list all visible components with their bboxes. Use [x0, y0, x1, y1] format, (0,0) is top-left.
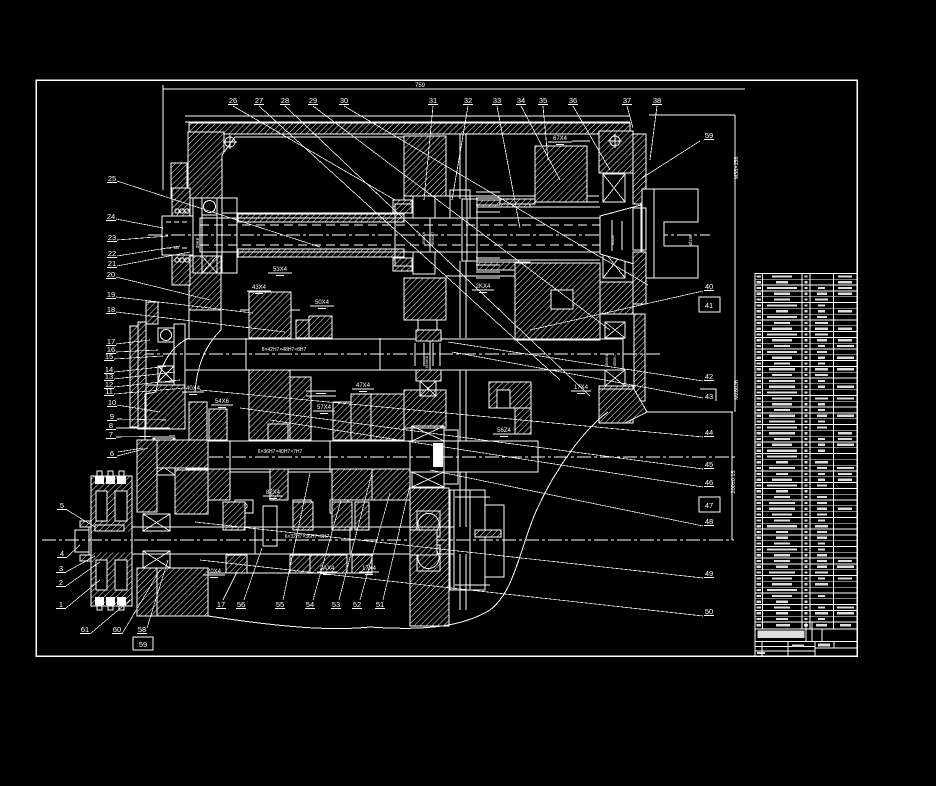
shaft3 right bearing upper [412, 426, 444, 441]
tooth profile verticals [230, 469, 372, 500]
gear label 67X4 [548, 136, 572, 145]
gear 40X4 [189, 402, 207, 440]
callout 24 [106, 212, 116, 221]
callout 61 [80, 625, 90, 634]
gear rim c [332, 469, 372, 500]
callout 5 [57, 501, 67, 510]
shaft4 shoulder line a [254, 527, 256, 554]
callout 59 boxed bottom [133, 637, 153, 650]
svg-text:28: 28 [281, 96, 289, 105]
parts list table [755, 274, 857, 657]
section bolt symbol right [608, 134, 622, 148]
output flange plate [91, 476, 132, 606]
callout 36 [568, 96, 578, 105]
leader line [116, 340, 150, 344]
gear block to wall [371, 394, 404, 440]
right bearing caps [633, 208, 646, 250]
gear label 54X6 [211, 399, 233, 408]
bearing cap column right [633, 134, 646, 204]
leader line [114, 356, 163, 359]
svg-text:34: 34 [517, 96, 525, 105]
gear z67 upper half [535, 146, 587, 202]
svg-text:Ø50K7: Ø50K7 [613, 354, 617, 366]
bevel cone on shaft1 right end [600, 205, 641, 266]
svg-text:55: 55 [276, 600, 284, 609]
leader line [543, 106, 548, 160]
shaft4 right ball bearing lower [417, 545, 440, 571]
sleeve hatched band on shaft1 lower [238, 249, 404, 257]
housing right wall upper [599, 131, 633, 173]
gear label 2KX4 [472, 284, 494, 293]
gear cap d [293, 500, 311, 513]
svg-text:43: 43 [705, 392, 713, 401]
gear 43X4 upper [249, 292, 291, 338]
callout 47 boxed [699, 497, 720, 512]
callout 28 [280, 96, 290, 105]
gear 47X4b [351, 394, 371, 440]
gear rim s4 b [290, 555, 313, 573]
shaft3 right bearing lower [412, 472, 444, 487]
svg-text:25: 25 [108, 174, 116, 183]
callout 19 [106, 290, 116, 299]
shaft4 left bearing lower [143, 551, 170, 568]
gear hub c [332, 502, 352, 530]
right end cap shaft3 [444, 430, 458, 484]
svg-text:31: 31 [429, 96, 437, 105]
svg-text:6×36H7×40H7×7H7: 6×36H7×40H7×7H7 [258, 449, 303, 455]
shaft2 mid bearing roller [420, 381, 436, 396]
callout 10 [107, 398, 117, 407]
leader line [285, 106, 590, 396]
leader 1 [66, 580, 100, 608]
callout 53 [331, 600, 341, 609]
gear 57X4 [333, 402, 351, 440]
gear hub d [355, 502, 369, 530]
svg-text:18: 18 [107, 305, 115, 314]
svg-text:56Z4: 56Z4 [497, 428, 511, 434]
gear hub strip [500, 199, 535, 204]
svg-text:32: 32 [464, 96, 472, 105]
shaft4 left bearing upper [143, 514, 170, 531]
callout 54 [305, 600, 315, 609]
table header row texts [757, 624, 762, 626]
bushing seal lower [416, 370, 441, 381]
callout 11 [104, 387, 114, 396]
retainer lower [80, 555, 91, 561]
svg-text:19: 19 [107, 290, 115, 299]
leader line [521, 106, 560, 180]
gear label 82X4 [263, 490, 283, 499]
svg-text:40X4: 40X4 [186, 386, 201, 392]
housing lower-left wall upper [137, 440, 157, 512]
svg-text:54: 54 [306, 600, 314, 609]
callout 45 [704, 460, 714, 469]
callout 49 [704, 569, 714, 578]
overall dimension line 759 [163, 88, 745, 90]
shaft 2 body [185, 339, 623, 370]
svg-text:21: 21 [108, 259, 116, 268]
svg-text:35: 35 [539, 96, 547, 105]
gear 54X6 [209, 409, 227, 440]
callout 55 [275, 600, 285, 609]
svg-text:M38×J56: M38×J56 [734, 157, 740, 180]
leader 58 [147, 560, 168, 628]
shaft4 shoulder line b [349, 527, 351, 554]
outer flange strip 1 [130, 326, 138, 427]
output flange of shaft 1 (C shape) [642, 189, 698, 278]
callout 35 [538, 96, 548, 105]
callout 33 [492, 96, 502, 105]
leader line [117, 419, 166, 420]
shaft 1 coupling bore block [162, 216, 193, 255]
callout 31 [428, 96, 438, 105]
shaft1 spline hidden line lower [200, 244, 600, 246]
callout 23 [107, 233, 117, 242]
leader line [259, 106, 560, 380]
gear rim s4 d [352, 555, 372, 573]
callout 32 [463, 96, 473, 105]
shaft 1 body [200, 218, 600, 252]
svg-text:47X4: 47X4 [356, 383, 371, 389]
gear label 20X4 [203, 569, 225, 578]
shaft 4 centerline [42, 539, 734, 541]
gear 50X4 upper [309, 316, 332, 338]
housing bottom outline [208, 572, 372, 574]
svg-text:1: 1 [59, 600, 63, 609]
right wall tapered foot (hatched) [599, 389, 647, 423]
svg-text:43X4: 43X4 [252, 285, 267, 291]
shaft2 right bearing lower [605, 370, 625, 386]
leader line [117, 448, 148, 456]
shaft3 left bearing lower [153, 460, 175, 475]
input left bearing cap [217, 198, 237, 273]
shaft3 shoulder line b [329, 441, 331, 472]
callout 38 [652, 96, 662, 105]
housing top plate hatched band [189, 123, 630, 134]
housing top cover plate [185, 115, 630, 117]
leader line [424, 106, 433, 200]
svg-text:M280J6: M280J6 [734, 380, 740, 400]
callout 12 [104, 380, 114, 389]
callout 58 [137, 625, 147, 634]
svg-text:22: 22 [108, 249, 116, 258]
svg-text:54X6: 54X6 [215, 399, 230, 405]
gear rim d [372, 469, 410, 500]
leader line [452, 352, 703, 398]
input right bearing lower [603, 250, 625, 278]
callout 37 [622, 96, 632, 105]
svg-text:52: 52 [353, 600, 361, 609]
leader line [448, 342, 703, 381]
leader line [283, 473, 310, 600]
shaft 2 left bearing (ball upper, cross lower) [158, 328, 174, 342]
leader line [627, 106, 633, 128]
svg-text:67X4: 67X4 [553, 136, 568, 142]
svg-text:56: 56 [237, 600, 245, 609]
gear label 43X4 [247, 285, 271, 294]
shaft 1 centerline [148, 234, 710, 236]
svg-text:27: 27 [255, 96, 263, 105]
gear rim row below shaft3 [186, 468, 410, 470]
leader line [383, 485, 410, 600]
callout 34 [516, 96, 526, 105]
gear label 17X4b [359, 566, 379, 575]
mid bearing cap upper [413, 196, 435, 218]
svg-text:38: 38 [653, 96, 661, 105]
gear hub ring stack [476, 192, 500, 278]
sleeve hatched band on shaft1 upper [238, 214, 404, 222]
shaft1 spline hidden line upper [200, 224, 600, 226]
gear label 47X4 [352, 383, 374, 392]
leader line [200, 560, 703, 616]
leader line [116, 436, 175, 437]
shaft3 shoulder line a [229, 441, 231, 472]
shaft 4 left end stub [75, 530, 89, 552]
callout 43 with elbow [700, 389, 716, 401]
housing interior cavity upper (chamfered corner) [222, 137, 404, 213]
callout 13 [104, 372, 114, 381]
shaft4 right stepped hub [450, 490, 485, 590]
gear hub band lower [477, 262, 530, 270]
bearing seat block left of mid wall [393, 200, 412, 213]
leader 3 [66, 556, 95, 572]
svg-text:47: 47 [705, 501, 713, 510]
leader line [116, 350, 158, 352]
shaft3 bearing seat block [157, 440, 208, 468]
svg-text:30: 30 [340, 96, 348, 105]
gear z43 step [268, 424, 288, 440]
leader 4 [67, 545, 80, 557]
key block [263, 506, 277, 546]
gear hub band on shaft1 [477, 206, 600, 208]
svg-text:82X4: 82X4 [266, 490, 281, 496]
leader line [114, 372, 175, 379]
gear 56Z4 [489, 382, 531, 408]
svg-text:44: 44 [705, 428, 713, 437]
leader line [116, 312, 285, 332]
svg-text:49: 49 [705, 569, 713, 578]
leader line [244, 548, 262, 600]
leader line [117, 405, 160, 412]
svg-text:50X4: 50X4 [315, 300, 330, 306]
svg-text:9: 9 [110, 412, 114, 421]
dim extension line top [649, 114, 735, 116]
callout 56 [236, 600, 246, 609]
svg-text:8: 8 [109, 421, 113, 430]
dim extension left [162, 85, 164, 190]
callout 8 [106, 421, 116, 430]
housing intermediate rib vertical lines x=460/466 [460, 134, 466, 610]
gear 56Z4 hub [515, 408, 531, 434]
callout 48 [704, 517, 714, 526]
shaft1 shoulder line b [394, 218, 396, 252]
spring coil section [175, 209, 189, 262]
svg-text:15: 15 [105, 352, 113, 361]
callout 27 [254, 96, 264, 105]
callout 50 [704, 607, 714, 616]
title text JW12 gearbox (simulated) [758, 631, 805, 639]
leader line [650, 106, 657, 160]
leader line [117, 246, 180, 256]
oil plug symbol left [223, 135, 237, 149]
leader line [452, 106, 468, 200]
input left bearing lower [202, 256, 217, 273]
lower wall block b [157, 568, 208, 616]
svg-text:50: 50 [705, 607, 713, 616]
input right bearing upper [603, 174, 625, 202]
svg-text:4: 4 [60, 549, 64, 558]
housing mid wall between shaft1-2 [404, 278, 446, 320]
leader line [200, 390, 703, 437]
parts table row contents (simulated tiny text) [757, 275, 762, 277]
svg-text:36: 36 [569, 96, 577, 105]
shaft2 shoulder line c [429, 338, 431, 370]
svg-text:59: 59 [139, 640, 147, 649]
housing wall bottom line [647, 411, 733, 413]
callout 14 [104, 365, 114, 374]
svg-text:33: 33 [493, 96, 501, 105]
drawing sheet border frame [36, 80, 857, 656]
gear label 40X4 [182, 386, 204, 395]
svg-text:39K6: 39K6 [195, 237, 200, 248]
leader line [530, 291, 703, 330]
svg-text:59: 59 [705, 131, 713, 140]
svg-text:53: 53 [332, 600, 340, 609]
bushing edge lines [414, 343, 416, 366]
gear rim a [186, 469, 230, 500]
table title block [755, 622, 857, 656]
leader 59 [642, 141, 700, 178]
gear hub b [293, 502, 313, 530]
svg-text:5: 5 [60, 501, 64, 510]
shaft2 shoulder line b [379, 338, 381, 370]
svg-text:11: 11 [105, 387, 113, 396]
callout 44 [704, 428, 714, 437]
leader line [339, 473, 372, 600]
outer flange strip 2 [138, 322, 146, 429]
svg-text:23: 23 [108, 233, 116, 242]
svg-text:24: 24 [107, 212, 115, 221]
callout 4 [57, 549, 67, 558]
shaft 2 centerline [140, 353, 660, 355]
leader line [117, 181, 320, 247]
callout 16 [106, 345, 116, 354]
leader line [114, 388, 185, 394]
shaft2 right bearing upper [605, 322, 625, 338]
svg-text:45: 45 [705, 460, 713, 469]
gear rim s4 c [310, 555, 347, 573]
gear step [296, 320, 309, 338]
gear hub a [223, 502, 245, 530]
leader line [573, 106, 610, 170]
leader line [117, 236, 168, 240]
shaft4 right ball bearing upper [417, 511, 440, 537]
housing right wall lower upper part [599, 282, 633, 314]
callout 22 [107, 249, 117, 258]
leader 60 [122, 570, 160, 634]
callout 17 [216, 600, 226, 609]
callout 18 [106, 305, 116, 314]
gear label 2AX4 [317, 566, 337, 575]
svg-text:29: 29 [309, 96, 317, 105]
svg-text:41: 41 [705, 301, 713, 310]
callout 51 [375, 600, 385, 609]
svg-text:60: 60 [113, 625, 121, 634]
bearing seat line lower [446, 275, 599, 277]
callout 29 [308, 96, 318, 105]
wall below shaft2 bearing [146, 385, 185, 429]
leader line [116, 297, 253, 313]
svg-text:Ø190: Ø190 [688, 234, 693, 246]
leader line [117, 252, 190, 266]
coupling flange lower [172, 255, 190, 285]
shaft2 left bearing lower [158, 366, 174, 382]
wall above shaft2 bearing [146, 302, 158, 324]
shaft 4 body [124, 527, 454, 554]
housing right-lower wall [410, 488, 449, 626]
gear label 50X4 [310, 300, 334, 309]
shaft 3 body [178, 441, 538, 472]
lower wall block a [175, 470, 208, 514]
top band right section line [446, 133, 599, 135]
leader 61 [90, 600, 130, 634]
callout 46 [704, 478, 714, 487]
svg-text:7: 7 [109, 430, 113, 439]
flange bolts top [95, 471, 104, 484]
shaft3 left bearing upper [153, 438, 175, 453]
svg-text:3: 3 [59, 564, 63, 573]
svg-text:Ø30K7: Ø30K7 [430, 231, 435, 244]
svg-text:6: 6 [110, 449, 114, 458]
key bar in flange hub [95, 525, 124, 531]
svg-text:42: 42 [705, 372, 713, 381]
svg-text:200±0.15: 200±0.15 [731, 471, 737, 494]
callout 2 [56, 578, 66, 587]
gear cap c [235, 500, 253, 513]
leader line [430, 470, 703, 526]
gear hub band upper [477, 200, 530, 207]
leader line [270, 420, 703, 487]
shaft1 shoulder line c [429, 218, 431, 252]
gear label 56Z4 [493, 428, 515, 437]
svg-text:57X4: 57X4 [317, 405, 332, 411]
callout 41 boxed [699, 297, 720, 312]
housing lower-left wall lower [137, 568, 157, 616]
gear label 57X4 [313, 405, 335, 414]
svg-text:61: 61 [81, 625, 89, 634]
leader 6 [118, 448, 143, 452]
svg-text:46: 46 [705, 478, 713, 487]
leader line [360, 493, 390, 600]
bearing boss left [171, 163, 187, 198]
shaft2 shoulder line a [245, 338, 247, 370]
housing bottom break curve (spline) [208, 412, 608, 629]
shaft3 shoulder line c [409, 441, 411, 472]
full-height collar ring on shaft1 [462, 199, 477, 261]
leader line [240, 408, 703, 469]
svg-text:51: 51 [376, 600, 384, 609]
callout 20 [106, 270, 116, 279]
leader line [116, 277, 210, 300]
gear z50 lower [290, 377, 311, 440]
shaft4 right hub [410, 530, 437, 555]
leader line [344, 106, 648, 285]
callout 30 [339, 96, 349, 105]
callout 21 [107, 259, 117, 268]
leader line [114, 366, 170, 372]
svg-text:Ø45K6: Ø45K6 [605, 354, 609, 366]
leader 5 [67, 510, 95, 527]
